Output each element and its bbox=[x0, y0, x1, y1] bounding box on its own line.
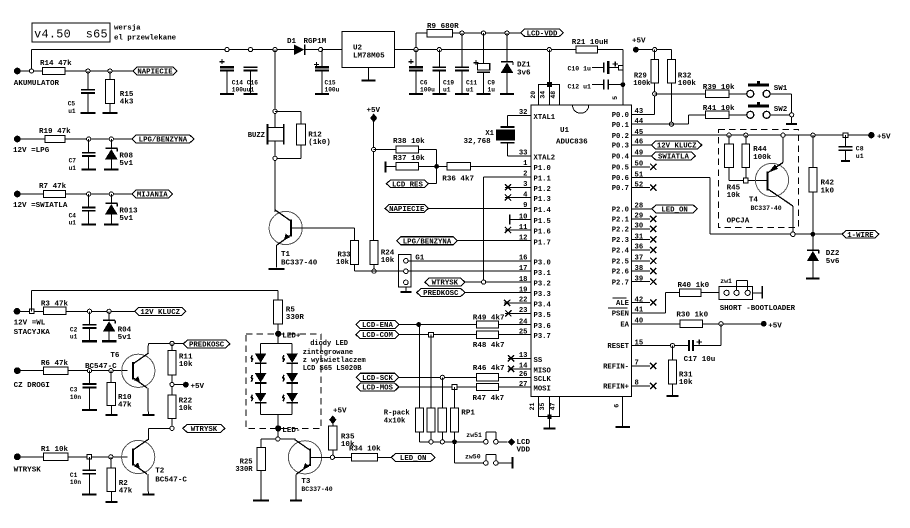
svg-text:LCD RES: LCD RES bbox=[392, 181, 423, 189]
svg-text:10k: 10k bbox=[727, 192, 741, 200]
svg-text:MISO: MISO bbox=[534, 368, 552, 376]
svg-text:PREDKOSC: PREDKOSC bbox=[423, 290, 459, 298]
svg-text:R-pack: R-pack bbox=[384, 410, 411, 418]
svg-text:44: 44 bbox=[635, 118, 644, 126]
svg-text:R30 1k0: R30 1k0 bbox=[676, 311, 708, 319]
svg-text:1k0: 1k0 bbox=[821, 187, 835, 195]
svg-text:37: 37 bbox=[635, 255, 644, 263]
svg-text:EA: EA bbox=[620, 321, 629, 329]
svg-text:C15: C15 bbox=[325, 79, 336, 86]
svg-text:C8: C8 bbox=[856, 145, 864, 152]
svg-text:34: 34 bbox=[539, 91, 546, 99]
svg-text:24: 24 bbox=[519, 318, 528, 326]
svg-text:C19: C19 bbox=[443, 79, 454, 86]
svg-text:(1k0): (1k0) bbox=[308, 139, 331, 147]
svg-text:P2.0: P2.0 bbox=[612, 207, 629, 215]
svg-text:47k: 47k bbox=[118, 402, 132, 410]
svg-text:R47 4k7: R47 4k7 bbox=[473, 395, 505, 403]
svg-text:T6: T6 bbox=[110, 352, 120, 360]
svg-text:VDD: VDD bbox=[517, 446, 531, 454]
svg-text:P0.5: P0.5 bbox=[612, 164, 629, 172]
svg-text:u1: u1 bbox=[69, 220, 77, 227]
svg-text:10n: 10n bbox=[70, 479, 81, 486]
svg-text:12V KLUCZ: 12V KLUCZ bbox=[657, 143, 697, 151]
svg-text:C17 10u: C17 10u bbox=[684, 356, 716, 364]
svg-text:P3.0: P3.0 bbox=[534, 259, 551, 267]
svg-text:C11: C11 bbox=[466, 79, 477, 86]
svg-text:P3.2: P3.2 bbox=[534, 281, 551, 289]
svg-text:C10 1u: C10 1u bbox=[568, 66, 592, 73]
svg-text:43: 43 bbox=[635, 108, 644, 116]
svg-text:5: 5 bbox=[612, 96, 619, 100]
svg-text:R37 10k: R37 10k bbox=[393, 155, 425, 163]
svg-text:P1.7: P1.7 bbox=[534, 239, 551, 247]
svg-text:zintegrowane: zintegrowane bbox=[303, 349, 353, 357]
svg-text:z wyswietlaczem: z wyswietlaczem bbox=[303, 357, 366, 365]
svg-text:XTAL2: XTAL2 bbox=[534, 154, 556, 162]
svg-text:R40 1k0: R40 1k0 bbox=[678, 282, 710, 290]
svg-text:P2.5: P2.5 bbox=[612, 258, 629, 266]
svg-text:33: 33 bbox=[519, 150, 528, 158]
svg-text:BC547-C: BC547-C bbox=[155, 477, 187, 485]
svg-text:C9: C9 bbox=[488, 79, 496, 86]
svg-text:REFIN-: REFIN- bbox=[603, 364, 629, 372]
svg-text:51: 51 bbox=[635, 171, 644, 179]
svg-text:P1.5: P1.5 bbox=[534, 218, 551, 226]
svg-text:45: 45 bbox=[635, 129, 644, 137]
svg-text:R41 10k: R41 10k bbox=[703, 105, 735, 113]
svg-text:P3.4: P3.4 bbox=[534, 301, 552, 309]
svg-text:SW1: SW1 bbox=[774, 85, 788, 93]
svg-text:u1: u1 bbox=[68, 108, 76, 115]
svg-text:4x10k: 4x10k bbox=[384, 418, 406, 426]
svg-text:18: 18 bbox=[519, 276, 528, 284]
svg-text:10k: 10k bbox=[179, 361, 193, 369]
svg-text:BC337-40: BC337-40 bbox=[281, 260, 318, 268]
svg-text:diody LED: diody LED bbox=[310, 340, 348, 348]
svg-text:8: 8 bbox=[635, 380, 639, 388]
svg-text:P1.4: P1.4 bbox=[534, 207, 552, 215]
svg-text:XTAL1: XTAL1 bbox=[534, 114, 556, 122]
svg-text:P0.7: P0.7 bbox=[612, 185, 629, 193]
svg-text:P2.7: P2.7 bbox=[612, 279, 629, 287]
svg-text:R48 4k7: R48 4k7 bbox=[473, 342, 505, 350]
svg-text:CZ DROGI: CZ DROGI bbox=[14, 382, 50, 390]
svg-text:P1.1: P1.1 bbox=[534, 175, 552, 183]
svg-text:R7 47k: R7 47k bbox=[39, 183, 67, 191]
svg-text:100k: 100k bbox=[753, 154, 772, 162]
svg-text:7: 7 bbox=[635, 360, 639, 368]
svg-text:C6: C6 bbox=[420, 79, 428, 86]
svg-text:MIJANIA: MIJANIA bbox=[137, 192, 168, 200]
svg-text:R36 4k7: R36 4k7 bbox=[442, 176, 474, 184]
svg-text:el przewlekane: el przewlekane bbox=[114, 35, 177, 43]
svg-text:BC337-40: BC337-40 bbox=[751, 205, 782, 212]
svg-text:T4: T4 bbox=[749, 197, 759, 205]
svg-text:+5V: +5V bbox=[632, 37, 646, 45]
svg-text:10k: 10k bbox=[679, 379, 693, 387]
svg-text:32,768: 32,768 bbox=[464, 138, 492, 146]
svg-text:12: 12 bbox=[519, 235, 528, 243]
svg-text:P3.1: P3.1 bbox=[534, 270, 552, 278]
svg-text:LCD-SCK: LCD-SCK bbox=[362, 375, 393, 383]
svg-text:39: 39 bbox=[635, 276, 644, 284]
svg-text:P1.6: P1.6 bbox=[534, 229, 551, 237]
svg-text:P2.1: P2.1 bbox=[612, 217, 630, 225]
svg-text:SS: SS bbox=[534, 357, 543, 365]
svg-text:NAPIECIE: NAPIECIE bbox=[389, 206, 425, 214]
svg-text:zw51: zw51 bbox=[466, 432, 482, 439]
svg-text:R14 47k: R14 47k bbox=[40, 60, 72, 68]
svg-text:C3: C3 bbox=[70, 387, 78, 394]
svg-text:P0.6: P0.6 bbox=[612, 175, 629, 183]
svg-text:T1: T1 bbox=[281, 251, 291, 259]
svg-text:10n: 10n bbox=[70, 394, 81, 401]
svg-text:LCD S65 LS020B: LCD S65 LS020B bbox=[303, 365, 363, 373]
svg-text:330R: 330R bbox=[286, 314, 305, 322]
svg-text:RP1: RP1 bbox=[461, 410, 475, 418]
svg-text:WTRYSK: WTRYSK bbox=[432, 280, 459, 288]
svg-text:26: 26 bbox=[519, 371, 528, 379]
svg-text:C4: C4 bbox=[69, 212, 77, 219]
svg-text:DZ1: DZ1 bbox=[517, 62, 531, 70]
svg-text:5v1: 5v1 bbox=[118, 334, 132, 342]
svg-text:52: 52 bbox=[635, 181, 644, 189]
svg-text:47k: 47k bbox=[119, 487, 133, 495]
svg-text:P0.0: P0.0 bbox=[612, 112, 629, 120]
svg-text:100u: 100u bbox=[325, 87, 340, 94]
svg-text:12V KLUCZ: 12V KLUCZ bbox=[140, 309, 180, 317]
svg-text:R46 4k7: R46 4k7 bbox=[473, 365, 505, 373]
svg-text:BC337-40: BC337-40 bbox=[301, 486, 332, 493]
svg-text:36: 36 bbox=[635, 244, 644, 252]
svg-text:4: 4 bbox=[523, 191, 528, 199]
svg-text:C1: C1 bbox=[70, 472, 78, 479]
svg-text:1u: 1u bbox=[488, 87, 496, 94]
svg-text:R38 10k: R38 10k bbox=[393, 138, 425, 146]
svg-text:5v1: 5v1 bbox=[119, 160, 133, 168]
svg-text:40: 40 bbox=[635, 318, 644, 326]
svg-text:u1: u1 bbox=[443, 87, 451, 94]
svg-text:3v6: 3v6 bbox=[517, 70, 531, 78]
svg-text:330R: 330R bbox=[235, 466, 253, 474]
svg-text:R1 10k: R1 10k bbox=[41, 446, 69, 454]
svg-text:WTRYSK: WTRYSK bbox=[191, 426, 218, 434]
svg-text:28: 28 bbox=[635, 203, 644, 211]
svg-text:DZ2: DZ2 bbox=[826, 250, 840, 258]
svg-text:P0.3: P0.3 bbox=[612, 143, 629, 151]
svg-text:ADUC836: ADUC836 bbox=[556, 139, 588, 147]
svg-text:41: 41 bbox=[635, 307, 644, 315]
svg-text:PSEN: PSEN bbox=[612, 311, 629, 319]
svg-text:R19 47k: R19 47k bbox=[39, 128, 71, 136]
svg-text:21: 21 bbox=[529, 403, 536, 411]
svg-text:P3.3: P3.3 bbox=[534, 291, 551, 299]
svg-text:23: 23 bbox=[519, 307, 528, 315]
svg-text:6: 6 bbox=[614, 404, 621, 408]
svg-text:+5V: +5V bbox=[768, 322, 782, 330]
svg-text:LCD-MOS: LCD-MOS bbox=[362, 385, 393, 393]
svg-text:19: 19 bbox=[519, 286, 528, 294]
svg-text:C12 u1: C12 u1 bbox=[568, 83, 592, 90]
svg-text:5v1: 5v1 bbox=[119, 215, 133, 223]
svg-text:11: 11 bbox=[519, 224, 528, 232]
svg-text:100u: 100u bbox=[420, 87, 435, 94]
svg-text:100k: 100k bbox=[633, 80, 651, 88]
svg-text:P3.7: P3.7 bbox=[534, 333, 551, 341]
svg-text:SW2: SW2 bbox=[774, 106, 788, 114]
svg-text:MOSI: MOSI bbox=[534, 386, 551, 394]
svg-text:U2: U2 bbox=[353, 45, 363, 53]
svg-text:LPG/BENZYNA: LPG/BENZYNA bbox=[139, 137, 188, 145]
svg-text:u1: u1 bbox=[247, 87, 255, 94]
svg-text:5v6: 5v6 bbox=[826, 258, 840, 266]
svg-text:R6 47k: R6 47k bbox=[41, 360, 69, 368]
svg-text:R3 47k: R3 47k bbox=[41, 301, 69, 309]
svg-text:22: 22 bbox=[519, 297, 528, 305]
svg-text:25: 25 bbox=[519, 328, 528, 336]
svg-text:46: 46 bbox=[635, 139, 644, 147]
svg-text:10k: 10k bbox=[336, 259, 350, 267]
svg-text:42: 42 bbox=[635, 296, 644, 304]
svg-text:17: 17 bbox=[519, 265, 528, 273]
svg-text:LPG/BENZYNA: LPG/BENZYNA bbox=[403, 238, 452, 246]
svg-text:16: 16 bbox=[519, 255, 528, 263]
svg-text:T3: T3 bbox=[301, 478, 311, 486]
svg-text:47: 47 bbox=[550, 403, 557, 411]
svg-text:u1: u1 bbox=[70, 334, 78, 341]
svg-text:BC547-C: BC547-C bbox=[85, 363, 117, 371]
svg-text:REFIN+: REFIN+ bbox=[603, 384, 629, 392]
svg-text:RGP1M: RGP1M bbox=[304, 38, 327, 46]
svg-text:14: 14 bbox=[519, 363, 528, 371]
svg-text:R42: R42 bbox=[821, 179, 835, 187]
svg-text:u1: u1 bbox=[69, 165, 77, 172]
svg-text:AKUMULATOR: AKUMULATOR bbox=[14, 80, 60, 88]
svg-text:LCD-ENA: LCD-ENA bbox=[362, 322, 393, 330]
svg-text:C14: C14 bbox=[232, 79, 243, 86]
svg-text:P0.1: P0.1 bbox=[612, 122, 630, 130]
svg-text:50: 50 bbox=[635, 161, 644, 169]
svg-text:12V =LPG: 12V =LPG bbox=[13, 147, 50, 155]
svg-text:PREDKOSC: PREDKOSC bbox=[189, 342, 225, 350]
svg-text:zw1: zw1 bbox=[720, 278, 732, 285]
svg-text:+5V: +5V bbox=[877, 134, 891, 142]
svg-text:OPCJA: OPCJA bbox=[727, 218, 750, 226]
svg-text:LED+: LED+ bbox=[282, 332, 301, 340]
svg-text:C7: C7 bbox=[69, 158, 77, 165]
svg-text:2: 2 bbox=[523, 171, 527, 179]
svg-text:P1.3: P1.3 bbox=[534, 196, 551, 204]
svg-text:10k: 10k bbox=[381, 257, 395, 265]
svg-text:32: 32 bbox=[519, 109, 528, 117]
svg-text:P0.2: P0.2 bbox=[612, 133, 629, 141]
svg-text:10: 10 bbox=[519, 213, 528, 221]
svg-text:13: 13 bbox=[519, 352, 528, 360]
svg-text:27: 27 bbox=[519, 381, 528, 389]
svg-text:STACYJKA: STACYJKA bbox=[14, 329, 51, 337]
svg-text:R9 680R: R9 680R bbox=[427, 23, 459, 31]
svg-text:P2.2: P2.2 bbox=[612, 227, 629, 235]
svg-text:v4.50 s65: v4.50 s65 bbox=[34, 28, 108, 42]
svg-text:R34 10k: R34 10k bbox=[349, 445, 381, 453]
svg-text:u1: u1 bbox=[856, 153, 864, 160]
svg-text:P3.6: P3.6 bbox=[534, 323, 551, 331]
svg-text:wersja: wersja bbox=[114, 25, 141, 33]
svg-text:P2.6: P2.6 bbox=[612, 269, 629, 277]
svg-text:49: 49 bbox=[635, 150, 644, 158]
svg-text:P2.4: P2.4 bbox=[612, 248, 630, 256]
svg-text:C2: C2 bbox=[70, 326, 78, 333]
svg-text:D1: D1 bbox=[287, 38, 297, 46]
svg-text:1: 1 bbox=[523, 160, 528, 168]
svg-text:R39 10k: R39 10k bbox=[703, 84, 735, 92]
svg-text:ALE: ALE bbox=[616, 300, 630, 308]
svg-text:U1: U1 bbox=[560, 127, 570, 135]
svg-text:P0.4: P0.4 bbox=[612, 153, 630, 161]
svg-text:LM78M05: LM78M05 bbox=[353, 53, 385, 61]
svg-text:20: 20 bbox=[530, 91, 537, 99]
svg-text:3: 3 bbox=[523, 181, 527, 189]
svg-text:P3.5: P3.5 bbox=[534, 312, 551, 320]
svg-text:BUZZ: BUZZ bbox=[248, 132, 265, 140]
svg-text:X1: X1 bbox=[485, 130, 494, 138]
svg-text:C5: C5 bbox=[68, 100, 76, 107]
svg-text:1-WIRE: 1-WIRE bbox=[847, 232, 874, 240]
svg-text:31: 31 bbox=[635, 233, 644, 241]
svg-text:T2: T2 bbox=[155, 467, 165, 475]
svg-text:LED-: LED- bbox=[282, 427, 300, 435]
svg-text:+5V: +5V bbox=[333, 408, 347, 416]
svg-text:R21 10uH: R21 10uH bbox=[572, 39, 609, 47]
svg-text:C16: C16 bbox=[247, 79, 258, 86]
svg-text:100u: 100u bbox=[232, 87, 247, 94]
svg-text:9: 9 bbox=[523, 202, 527, 210]
svg-text:+5V: +5V bbox=[191, 383, 205, 391]
svg-text:zw50: zw50 bbox=[465, 453, 481, 460]
svg-text:G1: G1 bbox=[415, 255, 425, 263]
svg-text:u1: u1 bbox=[466, 87, 474, 94]
svg-text:NAPIECIE: NAPIECIE bbox=[137, 69, 173, 77]
svg-text:30: 30 bbox=[635, 223, 644, 231]
svg-text:35: 35 bbox=[539, 403, 546, 411]
svg-text:SWIATLA: SWIATLA bbox=[658, 154, 689, 162]
svg-text:10k: 10k bbox=[179, 405, 193, 413]
svg-text:29: 29 bbox=[635, 213, 644, 221]
svg-text:100k: 100k bbox=[678, 80, 697, 88]
svg-text:P2.3: P2.3 bbox=[612, 237, 629, 245]
svg-text:38: 38 bbox=[635, 265, 644, 273]
svg-text:15: 15 bbox=[635, 339, 644, 347]
svg-text:R44: R44 bbox=[753, 146, 767, 154]
svg-text:P1.0: P1.0 bbox=[534, 165, 551, 173]
svg-text:WTRYSK: WTRYSK bbox=[14, 466, 42, 474]
svg-text:48: 48 bbox=[550, 91, 557, 99]
svg-text:SCLK: SCLK bbox=[534, 376, 552, 384]
svg-text:RESET: RESET bbox=[607, 343, 629, 351]
svg-text:LED_ON: LED_ON bbox=[400, 455, 426, 463]
svg-text:LCD-COM: LCD-COM bbox=[362, 332, 393, 340]
svg-text:P1.2: P1.2 bbox=[534, 186, 551, 194]
svg-text:12V =SWIATLA: 12V =SWIATLA bbox=[13, 202, 68, 210]
svg-text:R49 4k7: R49 4k7 bbox=[473, 314, 505, 322]
svg-text:LCD-VDD: LCD-VDD bbox=[527, 30, 558, 38]
svg-text:SHORT -BOOTLOADER: SHORT -BOOTLOADER bbox=[720, 305, 796, 313]
svg-text:12V =WL: 12V =WL bbox=[14, 320, 46, 328]
svg-text:LED_ON: LED_ON bbox=[661, 207, 687, 215]
svg-text:4k3: 4k3 bbox=[120, 99, 134, 107]
